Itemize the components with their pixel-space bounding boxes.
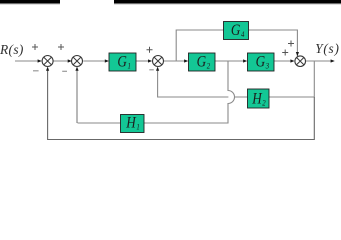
svg-text:2: 2 — [207, 61, 211, 71]
svg-text:G: G — [117, 54, 127, 71]
svg-text:2: 2 — [262, 98, 266, 108]
svg-text:G: G — [256, 54, 266, 71]
svg-text:1: 1 — [128, 61, 131, 71]
svg-text:H: H — [251, 91, 263, 108]
svg-text:1: 1 — [136, 122, 139, 132]
svg-text:H: H — [125, 115, 137, 132]
svg-text:G: G — [197, 54, 207, 71]
svg-text:G: G — [231, 22, 241, 39]
svg-text:3: 3 — [265, 61, 270, 71]
svg-text:4: 4 — [241, 30, 245, 40]
svg-text:R(s): R(s) — [0, 42, 24, 57]
svg-text:Y(s): Y(s) — [315, 41, 339, 56]
